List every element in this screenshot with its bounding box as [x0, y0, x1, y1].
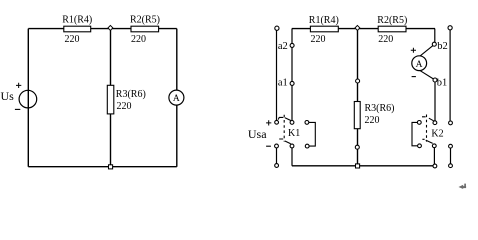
switch K1 contact row2 outer [275, 144, 279, 148]
svg-text:a2: a2 [278, 41, 288, 52]
switch K2 contact row1 outer [449, 121, 453, 125]
wire middle column (left circuit) [110, 29, 112, 167]
switch K2 hinge contact row1 inner [433, 121, 437, 125]
wire right column (left circuit) [176, 29, 178, 167]
wire bottom (right circuit) [292, 165, 434, 167]
lower terminal circle on middle branch (right circuit) [355, 145, 359, 149]
svg-text:220: 220 [378, 34, 393, 45]
svg-text:R2(R5): R2(R5) [377, 15, 407, 26]
plus sign of Usa [266, 120, 271, 125]
ammeter A (left circuit) [169, 90, 184, 105]
svg-text:b1: b1 [437, 78, 448, 89]
terminal circle top of outer-left line [275, 26, 279, 30]
switch K2 bottom blade [422, 139, 432, 143]
wire K1 row2 inner down to bottom wire [291, 148, 293, 166]
svg-text:220: 220 [131, 34, 146, 45]
plus sign of right ammeter [411, 48, 416, 53]
lower-left open terminal circle [275, 164, 279, 168]
switch K1 top blade [278, 117, 291, 120]
minus sign of right ammeter [412, 76, 416, 78]
terminal b2 [432, 42, 436, 46]
switch K1 linkage dashed line [283, 115, 285, 142]
switch K2 linkage dashed line [426, 115, 428, 142]
svg-text:b2: b2 [437, 41, 448, 52]
resistor R2(R5) left circuit [131, 26, 159, 32]
bottom wire end open circle [433, 164, 437, 168]
lower-right open terminal circle [449, 164, 453, 168]
svg-text:220: 220 [65, 34, 80, 45]
switch K1 bracket (right U link) [309, 122, 315, 146]
resistor R1(R4) right circuit [310, 26, 338, 32]
terminal circle top of outer-right line [448, 26, 452, 30]
wire diagonal ammeter to b1 [420, 70, 434, 79]
svg-text:R2(R5): R2(R5) [130, 15, 160, 26]
svg-text:R3(R6): R3(R6) [365, 103, 395, 114]
svg-text:A: A [416, 60, 423, 70]
switch K2 bracket (left U link) [412, 122, 418, 145]
switch K2 contact row2 outer [449, 144, 453, 148]
wire inner-left vertical (a-line) [291, 29, 293, 121]
switch K1 pole contact row1 outer [275, 120, 279, 124]
switch K1 contact row2 inner [290, 144, 294, 148]
wire top (left circuit) [28, 28, 177, 30]
resistor R1(R4) left circuit [64, 26, 91, 32]
switch K1 bracket contact row2 [305, 144, 309, 148]
wire left column (left circuit) [27, 29, 29, 167]
wire K1 row2 outer to lower terminal [276, 148, 278, 164]
wire right corner down from top wire to b2 [434, 29, 436, 43]
switch K1 bracket contact row1 [305, 121, 309, 125]
svg-text:220: 220 [311, 34, 326, 45]
node bottom-middle junction (right circuit) [356, 164, 360, 168]
voltage source Us circle [19, 90, 37, 108]
switch K2 bracket contact row1 [417, 121, 421, 125]
plus sign of Us [16, 83, 21, 88]
terminal b1 [433, 78, 437, 82]
wire K2 row2 outer down to lower terminal [450, 148, 452, 164]
svg-text:K2: K2 [431, 129, 443, 140]
svg-text:K1: K1 [288, 128, 300, 139]
node bottom-middle (left circuit) [109, 165, 113, 169]
svg-text:R1(R4): R1(R4) [309, 15, 339, 26]
wire bottom (left circuit) [28, 166, 177, 168]
wire diagonal b2 to ammeter [420, 46, 433, 56]
svg-text:220: 220 [117, 101, 132, 112]
minus sign of Us [15, 108, 20, 110]
switch K2 bracket contact row2 [418, 144, 422, 148]
switch K1 hinge contact row1 inner [290, 121, 294, 125]
svg-text:Us: Us [1, 89, 15, 103]
wire outer-left vertical (Usa + lead) [276, 30, 278, 120]
terminal a1 [290, 81, 294, 85]
svg-text:220: 220 [365, 115, 380, 126]
wire outer-right vertical [449, 30, 451, 121]
terminal circle on middle branch (right circuit) [356, 79, 360, 83]
resistor R3(R6) left circuit [107, 85, 114, 114]
switch K2 top blade [422, 117, 434, 121]
svg-text:Usa: Usa [248, 127, 267, 141]
resistor R2(R5) right circuit [378, 26, 406, 32]
wire b1 down to K2 [434, 82, 436, 121]
svg-text:R3(R6): R3(R6) [116, 89, 146, 100]
switch K1 bottom blade [279, 139, 291, 144]
resistor R3(R6) right circuit [354, 102, 360, 129]
ammeter A (right circuit) [412, 56, 427, 71]
switch K2 contact row2 inner [432, 144, 436, 148]
node top-middle (right circuit) [355, 25, 360, 30]
terminal a2 [290, 43, 294, 47]
wire top (right circuit) [292, 28, 435, 30]
svg-text:A: A [173, 94, 180, 104]
wire middle column (right circuit) [357, 29, 359, 166]
svg-text:R1(R4): R1(R4) [62, 15, 92, 26]
svg-text:a1: a1 [278, 77, 288, 88]
node top-middle (left circuit) [108, 25, 113, 30]
wire K2 row2 inner down to bottom wire end [433, 148, 435, 164]
minus sign of Usa [266, 145, 271, 147]
gray return/enter mark bottom-right [462, 184, 467, 188]
